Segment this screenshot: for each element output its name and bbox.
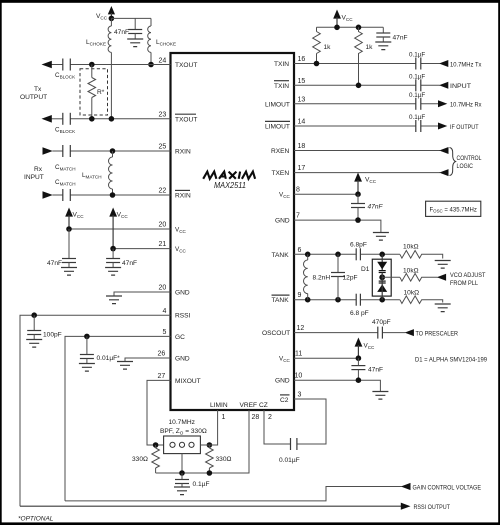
svg-text:22: 22 [159,188,167,195]
svg-text:Rx: Rx [34,166,43,173]
node: BPF left [153,442,159,448]
svg-text:21: 21 [159,241,167,248]
node: right 1k top [356,25,362,31]
svg-text:RSSI: RSSI [175,313,191,320]
svg-text:25: 25 [159,144,167,151]
node: R* top junction on pin24 wire [89,62,95,68]
svg-text:47nF: 47nF [114,29,129,36]
svg-text:TXOUT: TXOUT [175,62,197,69]
node: pin10 junction [356,377,362,383]
node: 8.2nH bottom [305,297,311,303]
svg-text:0.1µF: 0.1µF [409,73,425,80]
node: BPF right [207,442,213,448]
pin label TANK-bar (9) [272,295,290,304]
wire pin16 TXIN row [294,63,440,65]
wire BPF right to pin1 stub [200,444,209,446]
ground (0.01uF*) [79,364,95,372]
ground (BPF 0.1uF) [174,487,190,495]
svg-text:47nF: 47nF [368,204,384,211]
svg-text:0.1µF: 0.1µF [409,114,425,121]
resistor R* (optional, dashed box) [80,65,108,119]
svg-text:INPUT: INPUT [450,83,471,90]
svg-text:D1 = ALPHA SMV1204-199: D1 = ALPHA SMV1204-199 [415,357,487,364]
capacitor 0.01uF* (optional) [80,336,120,363]
wire pin22 RXIN-bar [53,194,171,196]
svg-text:9: 9 [298,292,302,299]
wire pin10 GND [294,380,380,391]
svg-text:18: 18 [298,143,306,150]
svg-text:TXIN: TXIN [274,61,289,68]
svg-text:LIMOUT: LIMOUT [265,124,290,131]
MAXIM logo [203,172,255,179]
svg-text:330Ω: 330Ω [216,456,232,463]
wire pin8 VCC [294,193,358,195]
svg-text:6.8pF: 6.8pF [350,242,367,249]
capacitor 470pF [372,319,391,339]
filter U2 10.7MHz BPF box [164,436,201,473]
ground (pin20 bypass) [61,268,77,276]
svg-text:RXIN: RXIN [175,193,191,200]
svg-text:INPUT: INPUT [24,174,44,181]
wire pin20 VCC [69,228,171,230]
wire pin2 CZ to 0.01uF [264,410,291,444]
wire pin6 TANK row [294,253,400,255]
svg-text:26: 26 [158,351,166,358]
svg-text:12pF: 12pF [343,275,358,282]
svg-text:OUTPUT: OUTPUT [20,94,47,101]
svg-text:GND: GND [175,356,190,363]
ground (10k bottom) [435,304,451,312]
MAX2511 part label [214,181,246,190]
inductor 8.2nH [303,254,330,299]
svg-text:7: 7 [296,213,300,220]
svg-text:GAIN CONTROL VOLTAGE: GAIN CONTROL VOLTAGE [413,484,482,491]
svg-text:5: 5 [163,329,167,336]
svg-text:17: 17 [298,165,306,172]
node: Vcc rail junction [109,16,115,22]
svg-text:LIMOUT: LIMOUT [265,101,290,108]
svg-text:100pF: 100pF [43,332,62,339]
node: D1 bottom [379,297,385,303]
arrow TO PRESCALER (points left) [405,329,414,336]
pin label C2-bar (3) [280,395,290,404]
svg-text:0.1µF: 0.1µF [409,52,425,59]
svg-text:11: 11 [295,351,302,358]
svg-text:*OPTIONAL: *OPTIONAL [18,516,54,523]
diode D1a (top varactor) [377,254,387,272]
svg-text:47nF: 47nF [47,260,62,267]
svg-text:10kΩ: 10kΩ [404,290,420,297]
wire varactor mid tap [382,276,400,278]
node: vcc rail [334,25,340,31]
power VCC (pin 20) [65,208,84,230]
svg-text:R*: R* [97,89,105,96]
svg-text:13: 13 [298,96,306,103]
wire pin25 RXIN [53,150,171,152]
node: R* bottom junction [89,116,95,122]
wire pin26 GND [125,358,171,362]
svg-text:20: 20 [159,222,167,229]
capacitor 0.1uF (TXIN) [409,52,425,70]
svg-text:1k: 1k [324,44,332,51]
svg-text:47nF: 47nF [368,367,383,374]
capacitor 47nF (pin21 bypass) [106,249,137,268]
resistor 10k (bottom) [400,290,443,304]
wire pin15 TXIN-bar row [294,84,440,86]
svg-text:6.8 pF: 6.8 pF [350,310,369,317]
capacitor 47nF (pin11 bypass) [351,358,383,380]
arrow IF OUTPUT (points right) [438,123,447,130]
wire pin23 TXOUT-bar [52,118,171,120]
svg-text:TXEN: TXEN [272,170,290,177]
wire pin12 OSCOUT [294,332,405,334]
inductor LMATCH [82,151,113,195]
capacitor 47nF (pin8 bypass) [351,194,384,220]
ground (100pF) [26,340,42,348]
svg-text:470pF: 470pF [372,319,391,326]
pin label RXIN-bar (22) [175,190,191,199]
wire pin9 TANK-bar row [294,299,400,301]
node: 12pF bottom [335,297,341,303]
svg-text:VCO ADJUST: VCO ADJUST [450,272,486,279]
svg-text:FOSC = 435.7MHz: FOSC = 435.7MHz [430,207,477,213]
svg-text:Tx: Tx [34,86,42,93]
pin label TXIN-bar (15) [274,81,289,90]
ground (1k rail bypass) [375,42,391,50]
capacitor 47nF (pin20 bypass) [47,229,76,268]
node: 8.2nH top [305,252,311,258]
svg-text:0.1µF: 0.1µF [193,481,210,488]
svg-text:10kΩ: 10kΩ [403,267,419,274]
arrow gain control (points left) [401,483,411,490]
resistor 1k (right) [355,27,373,85]
node: right choke to TXOUT wire [148,62,154,68]
resistor 330 (left) [132,445,159,473]
node: LMATCH top [110,148,116,154]
arrow INPUT (points left) [439,82,448,89]
svg-text:0.01µF: 0.01µF [279,457,300,464]
node: right 330 bottom junction [207,470,213,476]
power VCC (pin 8) [354,173,377,195]
svg-text:6: 6 [298,247,302,254]
power VCC (pin 11) [355,338,375,359]
node: varactor mid tap [379,274,385,280]
arrow RXEN (points left) [439,147,448,154]
wire Vcc rail to right choke and 47nF [111,17,151,19]
node: 1k left to pin16 [314,61,320,67]
svg-text:23: 23 [159,112,167,119]
wire pin7 GND [294,220,381,232]
wire pin13 LIMOUT row [294,103,439,105]
capacitor 0.1uF (BPF) [175,473,210,488]
wire pin4 RSSI to left rail [20,315,171,506]
diode D1 varactor pair box [361,259,391,296]
power VCC (pin 21) [109,208,128,249]
svg-text:10.7MHz Rx: 10.7MHz Rx [450,102,482,109]
wire pin21 VCC [113,248,170,250]
svg-text:RXIN: RXIN [175,149,191,156]
wire gain control rail [65,487,402,501]
svg-text:10.7MHz Tx: 10.7MHz Tx [450,61,482,68]
wire pin5 GC to gain-control rail [65,336,171,501]
capacitor CMATCH (bottom) [55,179,76,201]
svg-text:4: 4 [163,308,167,315]
capacitor 47nF (Tx choke bypass) [114,18,142,39]
capacitor 0.01uF (CZ) [279,438,300,464]
svg-text:LOGIC: LOGIC [457,163,474,170]
svg-text:10: 10 [295,373,303,380]
wire pin3 C2-bar to 0.01uF [294,399,326,444]
ground (pin26) [117,362,133,370]
svg-text:1: 1 [222,414,226,421]
node: pin8 junction [355,191,361,197]
capacitor CMATCH (top) [55,145,76,171]
wire pin27 MIXOUT down to BPF [147,380,171,445]
box FOSC [426,201,481,216]
arrow Rx input (top, points right) [43,147,53,155]
svg-text:14: 14 [298,119,306,126]
capacitor 12pF [331,254,358,299]
node: RSSI / 100pF junction [31,312,37,318]
arrow Tx output (top, points left) [42,61,52,69]
power VCC (top left) [96,6,115,21]
svg-text:8: 8 [296,187,300,194]
arrow RSSI output (points right) [401,503,411,510]
label Rx INPUT [24,166,44,181]
node: pin7 junction [355,217,361,223]
svg-text:CZ: CZ [259,402,268,409]
svg-text:15: 15 [298,78,306,85]
ground (pin19) [106,296,122,304]
node: 12pF top [335,252,341,258]
svg-text:RXEN: RXEN [271,148,290,155]
capacitor 47nF (1k rail bypass) [376,27,407,42]
node: LMATCH bottom [110,192,116,198]
op IC U1 MAX2511 body [171,53,295,410]
svg-text:CONTROL: CONTROL [457,155,482,162]
label VCO ADJUST FROM PLL [450,272,486,287]
pin label TXOUT-bar (23) [175,114,197,123]
wire pin24 TXOUT [52,64,171,66]
diode D1b (bottom varactor) [377,273,387,300]
svg-text:GND: GND [275,378,290,385]
svg-text:FROM PLL: FROM PLL [450,280,478,287]
node: pin21 vcc junction [110,246,116,252]
ground (47nF Tx bypass) [127,39,143,47]
node: pin20 vcc junction [66,226,72,232]
node: GC / 0.01uF junction [84,334,90,340]
arrow 10.7MHz Rx (points right) [438,100,447,107]
svg-text:47nF: 47nF [393,35,408,42]
inductor LCHOKE (left) [86,18,111,52]
svg-text:0.1µF: 0.1µF [409,92,425,99]
svg-text:27: 27 [158,373,166,380]
svg-text:C2: C2 [280,397,289,404]
capacitor 6.8pF (top) [350,242,367,261]
resistor 10k (top) [400,244,443,259]
svg-text:2: 2 [268,414,272,421]
pin label LIMOUT-bar (14) [265,121,290,130]
capacitor CBLOCK (bottom) [55,113,76,134]
resistor 10k (middle) [400,267,438,281]
node: left choke to pin23 wire [109,116,115,122]
svg-text:20: 20 [159,285,167,292]
svg-text:3: 3 [298,392,302,399]
resistor 1k (left) [313,27,331,63]
arrow 10.7MHz Tx (points left) [439,60,448,67]
svg-text:330Ω: 330Ω [132,456,148,463]
svg-text:GND: GND [275,218,290,225]
brace control logic [450,148,456,176]
svg-text:47nF: 47nF [122,260,137,267]
svg-text:RSSI OUTPUT: RSSI OUTPUT [414,504,451,511]
arrow VCO adjust (points left) [437,274,446,281]
svg-text:MAX2511: MAX2511 [214,181,246,190]
svg-text:LIMIN: LIMIN [210,402,228,409]
wire pin17 TXEN [294,172,440,174]
wire RSSI output rail [20,505,402,507]
label CONTROL LOGIC [457,155,482,170]
node: pin11 junction [356,355,362,361]
wire pin19 GND [114,292,171,296]
capacitor 100pF [27,315,62,339]
svg-text:TANK: TANK [272,252,290,259]
arrow Rx input (bottom, points right) [43,191,53,199]
svg-text:D1: D1 [361,266,370,273]
svg-text:0.01µF*: 0.01µF* [97,355,121,362]
wire Vcc rail (1k tops / 47nF) [317,26,384,28]
wire pin1 LIMIN down to BPF right [209,410,217,445]
ground (10k top) [435,261,451,269]
svg-text:GND: GND [175,290,190,297]
label 10.7MHz BPF Z0=330 [160,419,207,436]
svg-text:BPF, ZO = 330Ω: BPF, ZO = 330Ω [160,428,207,436]
label Tx OUTPUT [20,86,47,101]
svg-text:TXIN: TXIN [274,83,289,90]
svg-text:8.2nH: 8.2nH [313,275,331,282]
capacitor 0.1uF (LIMOUT) [409,92,425,110]
svg-text:10.7MHz: 10.7MHz [169,419,195,426]
node: D1 top [379,252,385,258]
ground (pin21 bypass) [105,268,121,276]
wire BPF bottom node to pin28 VREF [156,410,249,473]
node: 0.1uF junction [179,470,185,476]
capacitor 6.8pF (bottom) [350,294,369,317]
wire left choke down to pin23 line (crosses pin24 line) [110,52,112,118]
capacitor 0.1uF (LIMOUT-bar) [409,114,425,132]
inductor LCHOKE (right) [148,18,176,64]
svg-text:VREF: VREF [240,402,258,409]
wire pin11 VCC [294,357,358,359]
svg-text:TO PRESCALER: TO PRESCALER [416,330,459,337]
capacitor CBLOCK (top) [55,59,76,80]
capacitor 0.1uF (TXIN-bar) [409,73,425,91]
svg-text:16: 16 [298,56,306,63]
svg-text:10kΩ: 10kΩ [403,244,419,251]
wire pin18 RXEN [294,150,440,152]
svg-text:GC: GC [175,334,185,341]
svg-text:OSCOUT: OSCOUT [262,330,290,337]
ground (pin7) [373,233,389,241]
power VCC (1k pullups) [333,10,353,28]
node: 1k right to pin15 [356,83,362,89]
wire pin14 LIMOUT-bar row [294,125,439,127]
resistor 330 (right) [206,445,232,473]
svg-text:1k: 1k [366,44,374,51]
svg-text:12: 12 [297,325,305,332]
svg-text:24: 24 [159,58,167,65]
svg-text:IF OUTPUT: IF OUTPUT [450,124,479,131]
arrow TXEN (points left) [439,169,448,176]
arrow Tx output (bottom, points left) [42,115,52,123]
svg-text:MIXOUT: MIXOUT [175,378,201,385]
ground (pin10) [372,392,388,400]
svg-text:TXOUT: TXOUT [175,116,197,123]
svg-text:TANK: TANK [272,297,290,304]
svg-text:28: 28 [252,414,260,421]
